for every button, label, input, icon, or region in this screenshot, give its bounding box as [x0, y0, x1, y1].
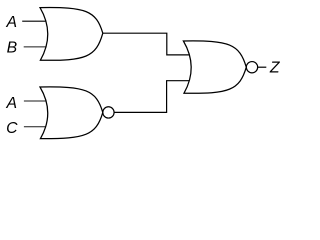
svg-text:B: B — [7, 39, 18, 56]
inversion bubble of U3 — [246, 62, 257, 73]
NOR gate U2 body (inputs A,C) — [40, 87, 103, 139]
svg-text:A: A — [6, 14, 18, 31]
wire input A to OR gate U1 — [22, 20, 47, 22]
svg-text:Z: Z — [269, 60, 281, 77]
wire U1 output to U3 top input (right, down, right) — [103, 33, 191, 55]
wire U3 output to Z — [258, 66, 267, 68]
wire U2 output to U3 bottom input (right, up, right) — [114, 81, 191, 113]
wire input B to OR gate U1 — [24, 46, 48, 48]
OR gate U1 (inputs A,B) — [40, 8, 103, 61]
wire input A to NOR gate U2 — [24, 100, 48, 102]
svg-text:A: A — [6, 95, 18, 112]
inversion bubble of U2 — [103, 107, 114, 118]
svg-text:C: C — [6, 120, 18, 137]
wire input C to NOR gate U2 — [24, 126, 48, 128]
NOR gate U3 body (output Z) — [183, 41, 246, 93]
